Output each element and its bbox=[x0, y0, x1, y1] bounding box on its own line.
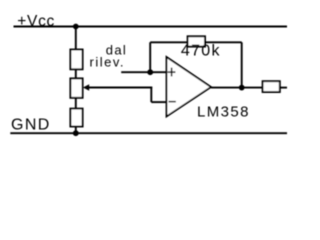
wire: output stub bbox=[280, 87, 287, 89]
wire: feedback right vertical bbox=[241, 42, 243, 87]
resistor R5 (output) bbox=[263, 81, 280, 92]
wire: into inverting input bbox=[151, 101, 166, 103]
op-amp U1 triangle bbox=[167, 57, 212, 117]
wire: R1 to R2 bbox=[75, 69, 77, 79]
resistor R4 470k (feedback) bbox=[188, 36, 205, 46]
op-amp - pin mark bbox=[169, 101, 176, 103]
wire: feedback top right segment bbox=[204, 41, 242, 43]
GND rail bbox=[10, 132, 287, 134]
+Vcc rail bbox=[14, 26, 288, 28]
node: divider bottom on GND rail bbox=[73, 130, 79, 136]
node: non-inverting input junction bbox=[147, 69, 153, 75]
node: output junction to feedback bbox=[239, 85, 245, 91]
wire: op-amp output bbox=[211, 87, 263, 89]
wire: feedback top left segment bbox=[150, 41, 189, 43]
resistor R1 (divider top) bbox=[70, 50, 82, 70]
wire: feedback left vertical bbox=[149, 42, 151, 72]
resistor R3 (divider bottom) bbox=[70, 109, 82, 127]
wire: R2 to R3 bbox=[75, 98, 77, 109]
wire: wiper corner down bbox=[150, 87, 152, 103]
svg-text:470k: 470k bbox=[181, 42, 221, 59]
svg-text:rilev.: rilev. bbox=[90, 54, 125, 69]
wire: R3 to GND rail bbox=[75, 127, 77, 134]
op-amp + pin mark bbox=[168, 71, 176, 73]
wire: signal input to non-inverting input bbox=[121, 71, 166, 73]
svg-text:LM358: LM358 bbox=[197, 103, 250, 120]
svg-text:+Vcc: +Vcc bbox=[17, 13, 55, 30]
wire: +Vcc rail to R1 bbox=[75, 27, 77, 51]
node: divider tap on +Vcc rail bbox=[73, 24, 79, 30]
wire: wiper horizontal run bbox=[88, 87, 152, 89]
svg-text:GND: GND bbox=[11, 117, 51, 134]
wiper arrowhead into R2 bbox=[83, 84, 89, 90]
resistor R2 (trimmer body) bbox=[70, 78, 82, 97]
